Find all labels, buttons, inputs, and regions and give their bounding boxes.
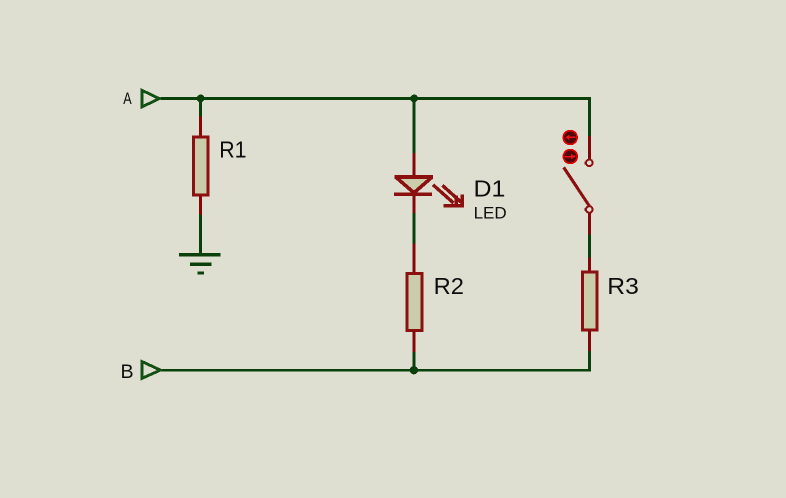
node junction at R1 top (197, 95, 205, 103)
LED D1 cathode junction (apex to bar) (412, 190, 415, 196)
LED D1 triangle right edge (414, 178, 432, 193)
resistor R3 pin 2 (bottom, red) (588, 331, 591, 351)
switch actuator button up (563, 131, 577, 145)
switch pin top (red) (588, 136, 591, 159)
terminal B (142, 362, 161, 379)
wire net B (bottom rail) (162, 369, 592, 372)
svg-text:R1: R1 (219, 136, 246, 162)
resistor R2 body (407, 274, 422, 331)
svg-text:D1: D1 (474, 176, 506, 202)
svg-text:LED: LED (474, 205, 507, 223)
resistor R2 pin 1 (top, red) (412, 244, 415, 274)
LED D1 cathode bar (394, 193, 432, 197)
LED D1 triangle fill (397, 179, 431, 194)
switch contact bottom (584, 206, 592, 213)
LED D1 triangle left edge (396, 178, 414, 193)
node junction at net B (410, 366, 418, 374)
switch actuator button down (563, 150, 577, 164)
resistor R1 pin 1 (top, red) (199, 116, 202, 136)
wire net A (top rail) (161, 97, 591, 100)
switch contact top (584, 160, 592, 167)
wire right vertical (net A, green) (588, 97, 591, 136)
resistor R3 pin 1 (top, red) (588, 257, 591, 272)
wire junction A to D1 (green) (412, 99, 415, 154)
resistor R2 pin 2 (bottom, red) (412, 331, 415, 352)
wire junction A to R1 (green) (199, 99, 202, 117)
switch lever (open) (564, 167, 590, 206)
LED D1 pin 2 (cathode, red) (412, 196, 415, 213)
LED D1 emission arrow 1 (433, 185, 458, 206)
wire switch to R3 (green) (588, 235, 591, 258)
LED D1 triangle top edge (395, 175, 434, 179)
LED D1 pin 1 (anode, red) (412, 153, 415, 176)
ground (179, 255, 221, 273)
resistor R3 body (582, 272, 597, 330)
wire R3 to net B corner (green) (588, 351, 591, 370)
svg-text:B: B (121, 362, 134, 383)
terminal A (142, 90, 159, 107)
wire R1 to ground (green) (199, 215, 202, 254)
resistor R1 body (193, 137, 208, 195)
wire R2 to net B (green) (412, 352, 415, 370)
node junction at D1 top (410, 95, 418, 103)
svg-text:R3: R3 (607, 273, 639, 299)
svg-text:A: A (123, 90, 131, 108)
resistor R1 pin 2 (bottom, red) (199, 196, 202, 215)
wire D1 to R2 (green) (412, 213, 415, 243)
switch pin bottom (red) (588, 213, 591, 235)
svg-text:R2: R2 (434, 273, 464, 299)
LED D1 emission arrow 2 (442, 185, 464, 206)
